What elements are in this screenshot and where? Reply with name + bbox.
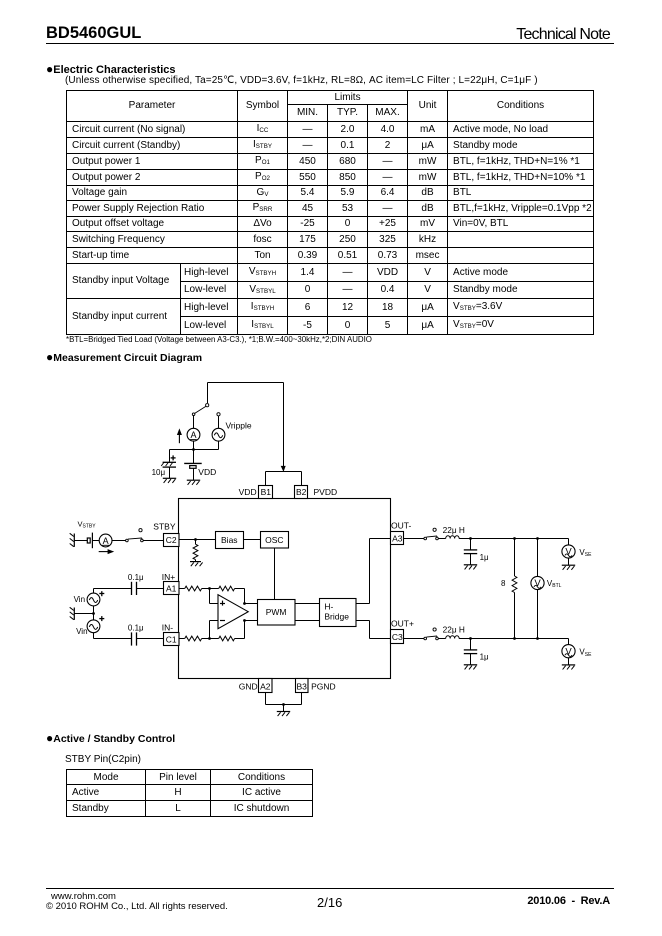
footer [46,888,614,889]
svg-text:C3: C3 [392,632,403,642]
inductor 22uH (OUT+) [446,636,459,639]
label Vin (bottom) [76,627,87,636]
label 22uH (OUT-) [443,525,465,535]
svg-text:A2: A2 [260,681,271,691]
junction dot ground node [282,703,285,706]
IC block outline BD5460GUL [179,499,391,679]
resistor (STBY pulldown) [193,540,198,562]
svg-text:22μ H: 22μ H [443,525,465,535]
svg-text:PGND: PGND [311,681,336,691]
junction dot IN- [208,637,211,640]
pin A1 [164,582,180,595]
CIRCUIT_SVG [0,366,662,732]
table 2 [66,769,313,817]
label PVDD (pin B2) [314,487,338,497]
wire switch to inductor [438,538,445,540]
ground (Vin common, rotated) [70,607,75,620]
voltmeter VSE (OUT+) [562,645,575,665]
pin C2 [164,534,180,547]
wire Bias to OSC [244,539,261,541]
svg-text:A: A [190,430,196,440]
label VSE (OUT-) [579,548,592,558]
label Vripple [226,421,252,431]
wire C2 to Bias [179,539,216,541]
svg-text:Bridge: Bridge [324,611,349,621]
svg-text:VSE: VSE [579,648,592,658]
pin B1 [259,486,273,499]
resistor (IN- input) [185,636,202,641]
junction dot feedback top [243,602,246,605]
label STBY (pin C2) [153,521,176,531]
ground (VSE top) [562,565,575,570]
op-amp U1 [218,595,248,629]
current direction arrow (right) [99,549,115,554]
wire from VDD switch to top rail [207,383,209,404]
junction dot feedback bottom [243,619,246,622]
wire to voltmeter VSE bottom [568,639,570,645]
current direction arrow (up) [177,428,182,443]
wire op-amp out bottom to PWM [245,620,258,622]
svg-text:B2: B2 [296,487,307,497]
resistor 8 ohm (load) [512,539,517,639]
wire switch to inductor [438,638,445,640]
svg-text:Vin: Vin [76,627,87,636]
ground (VSTBY source, rotated) [70,533,75,547]
label 8 (load) [501,579,506,588]
label 0.1u (IN+) [128,573,144,582]
wire to junction IN- [202,638,219,640]
svg-text:B1: B1 [261,487,272,497]
battery VSTBY source [87,533,92,549]
wire to voltmeter VSE top [568,539,570,546]
svg-text:OUT-: OUT- [391,521,411,531]
ammeter A1m (supply current) [187,428,200,441]
svg-text:OSC: OSC [265,535,283,545]
battery VDD source [184,450,202,485]
capacitor 1u (OUT+) [464,639,477,670]
svg-text:GND: GND [239,681,258,691]
capacitor 0.1u (IN-) [132,632,164,645]
label GND (pin A2) [239,681,258,691]
wire feedback top to PWM input [235,589,245,604]
ground (VSE bottom) [562,665,575,670]
label 1u (OUT+) [480,653,489,662]
wire H-Bridge to pin A3 [356,539,391,604]
svg-text:IN-: IN- [162,623,174,633]
wire inductor to VSE bottom [459,638,568,640]
wire IN+ junction to op-amp [210,589,219,604]
svg-text:IN+: IN+ [162,572,176,582]
svg-text:1μ: 1μ [480,653,489,662]
switch S4 (OUT+) [424,628,438,640]
block H-Bridge [320,599,357,627]
resistor (IN+ input) [185,586,202,591]
wire C1 into IC [179,638,185,640]
wire A2/B3 to ground [266,693,302,712]
svg-text:Vin: Vin [74,595,85,604]
label VSTBY [78,519,97,529]
label VDD (pin B1) [239,487,257,497]
voltmeter VSE (OUT-) [562,545,575,565]
wire rail down to B1/B2 with arrowhead [281,383,286,472]
pin A3 [391,532,404,545]
label IN- (pin C1) [162,623,174,633]
wire A3 to switch [404,538,425,540]
section 2 heading [46,350,202,364]
wire feedback bottom to PWM input [235,621,245,639]
wire ammeter to supply bus [193,441,195,449]
junction dot VBTL top [536,537,539,540]
svg-text:A: A [103,536,109,546]
plus sign Vin bottom [99,616,104,621]
block Bias [216,532,244,549]
AC source Vin (top) [87,593,100,606]
svg-text:VDD: VDD [198,467,216,477]
junction dot VBTL bottom [536,637,539,640]
AC source Vin (bottom) [87,620,100,633]
junction dot LC (OUT-) [469,537,472,540]
svg-text:VDD: VDD [239,487,257,497]
wire battery to ammeter [92,540,99,542]
wire to junction IN+ [202,588,219,590]
section 3 heading [46,731,175,745]
pin B2 [295,486,308,499]
svg-text:VSE: VSE [579,548,592,558]
AC source Vripple [212,413,225,450]
wire IN- junction to op-amp [210,621,219,639]
pin C1 [164,633,180,646]
junction dot LC (OUT+) [469,637,472,640]
label 10u [152,468,166,477]
junction dot 8ohm top [513,537,516,540]
inductor 22uH (OUT-) [446,536,459,539]
block PWM [258,600,296,626]
pin C3 [391,630,404,644]
wire top rail [208,382,284,384]
wire ammeter to switch [112,540,126,542]
capacitor 10u (electrolytic) [161,450,176,483]
label OUT- (pin A3) [391,521,411,531]
wire PWM to H-Bridge top [295,603,320,605]
plus sign Vin top [99,591,104,596]
switch S3 (OUT-) [424,528,438,540]
supply bus wire [170,449,219,451]
capacitor 0.1u (IN+) [132,582,164,595]
svg-text:1μ: 1μ [480,553,489,562]
svg-text:10μ: 10μ [152,468,166,477]
svg-text:C2: C2 [166,535,177,545]
junction dot supply bus [192,448,195,451]
header [46,24,141,43]
wire ground to battery [74,540,87,542]
wire C3 to switch [404,638,425,640]
svg-text:A1: A1 [166,584,177,594]
label Vin (top) [74,595,85,604]
label 22uH (OUT+) [443,625,465,635]
junction dot C2 node [194,538,197,541]
switch S2 (STBY) [126,529,144,542]
wire inductor to VSE top [459,538,568,540]
svg-text:VBTL: VBTL [547,579,562,589]
resistor (feedback bottom) [219,636,235,641]
svg-text:VSTBY: VSTBY [78,519,97,529]
junction dot 8ohm bottom [513,637,516,640]
ground (GND/PGND) [277,712,290,717]
svg-text:A3: A3 [392,534,403,544]
block OSC [261,532,289,549]
junction dot IN+ [208,587,211,590]
label PGND (pin B3) [311,681,336,691]
svg-text:0.1μ: 0.1μ [128,573,144,582]
svg-text:C1: C1 [166,634,177,644]
svg-text:Bias: Bias [221,535,238,545]
label VDD (battery) [198,467,216,477]
wire PWM to H-Bridge bottom [295,620,320,622]
resistor (feedback top) [219,586,235,591]
svg-text:0.1μ: 0.1μ [128,624,144,633]
svg-text:OUT+: OUT+ [391,619,414,629]
label 1u (OUT-) [480,553,489,562]
svg-text:B3: B3 [296,681,307,691]
wire H-Bridge to pin C3 [356,621,391,639]
svg-text:Vripple: Vripple [226,421,252,431]
ammeter A2m (standby current) [99,534,112,547]
table 1 [66,90,594,335]
switch S1 (VDD select) [192,404,208,416]
label OUT+ (pin C3) [391,619,414,629]
label IN+ (pin A1) [162,572,176,582]
wire split to B1/B2 pins [266,472,302,486]
wire between Vin sources [93,606,95,620]
ground (STBY pulldown) [190,562,203,567]
wire Vin top to coupling cap [94,589,132,594]
label VBTL [547,579,562,589]
svg-text:H-: H- [324,601,333,611]
pin B3 [296,679,309,693]
wire op-amp out top to PWM [245,603,258,605]
junction dot Vin common [92,612,95,615]
wire A1 into IC [179,588,185,590]
wire OSC to PWM [274,548,276,600]
svg-text:PWM: PWM [266,607,287,617]
wire Vin bottom to coupling cap [94,633,132,639]
svg-text:PVDD: PVDD [314,487,338,497]
wire switch to ammeter [193,416,195,429]
pin A2 [259,679,273,693]
svg-text:8: 8 [501,579,506,588]
wire Vin common to ground [74,613,93,615]
svg-text:22μ H: 22μ H [443,625,465,635]
wire switch to pin C2 [143,540,163,542]
label VSE (OUT+) [579,648,592,658]
svg-text:STBY: STBY [153,521,176,531]
capacitor 1u (OUT-) [464,539,477,570]
label 0.1u (IN-) [128,624,144,633]
voltmeter VBTL [531,539,544,639]
section 1 heading [46,62,176,76]
